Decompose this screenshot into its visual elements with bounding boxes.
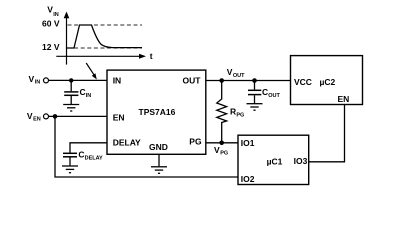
ground (IC GND) <box>151 167 167 174</box>
svg-text:TPS7A16: TPS7A16 <box>139 107 176 117</box>
svg-text:DELAY: DELAY <box>113 137 141 147</box>
svg-text:V: V <box>27 111 33 121</box>
label CDELAY <box>78 149 103 161</box>
resistor RPG <box>217 81 227 143</box>
wire PG pin to IO1 of uC1 <box>206 142 238 144</box>
label CIN <box>80 87 92 99</box>
label VPG <box>214 145 228 157</box>
svg-text:IO2: IO2 <box>241 174 255 184</box>
label VIN <box>29 74 41 86</box>
svg-text:µC2: µC2 <box>320 77 336 87</box>
junction node VOUT/COUT <box>252 78 257 83</box>
svg-text:IO1: IO1 <box>241 138 255 148</box>
svg-text:EN: EN <box>33 117 41 123</box>
inset waveform trace <box>67 25 142 48</box>
svg-text:DELAY: DELAY <box>85 155 103 161</box>
inset plot t-axis <box>56 55 140 57</box>
svg-text:VCC: VCC <box>294 77 312 87</box>
svg-text:R: R <box>230 106 236 116</box>
svg-text:12 V: 12 V <box>42 42 60 52</box>
ground (CDELAY) <box>62 166 78 173</box>
svg-text:V: V <box>29 74 35 84</box>
junction node VEN branch <box>53 114 58 119</box>
svg-text:IN: IN <box>53 12 59 18</box>
inset dashed level 60V <box>68 24 143 26</box>
microcontroller uC2 <box>291 56 363 105</box>
svg-text:OUT: OUT <box>268 93 280 99</box>
svg-text:IN: IN <box>35 80 41 86</box>
svg-text:IN: IN <box>86 93 92 99</box>
svg-text:GND: GND <box>149 142 168 152</box>
inset label VIN <box>47 5 59 18</box>
label RPG <box>230 106 244 118</box>
capacitor CIN <box>64 80 78 104</box>
svg-text:EN: EN <box>113 112 125 122</box>
wire uC2 EN down to IO3 <box>309 105 345 162</box>
svg-text:PG: PG <box>236 112 244 118</box>
svg-text:OUT: OUT <box>183 76 202 86</box>
capacitor COUT <box>248 81 261 104</box>
label COUT <box>262 87 280 99</box>
op IC U1 TPS7A16 <box>107 70 206 154</box>
wire VEN down and along bottom to IO2 <box>55 116 238 177</box>
label VOUT <box>227 67 245 79</box>
svg-text:µC1: µC1 <box>267 156 283 166</box>
junction node VOUT/RPG <box>219 78 224 83</box>
input terminal VEN <box>44 114 49 119</box>
svg-text:PG: PG <box>220 151 228 157</box>
svg-text:60 V: 60 V <box>42 18 60 28</box>
wire VEN to IC EN pin <box>49 115 107 117</box>
svg-text:IN: IN <box>113 76 122 86</box>
wire OUT to VCC of uC2 <box>206 80 291 82</box>
microcontroller uC1 <box>238 135 309 184</box>
svg-text:EN: EN <box>338 94 350 104</box>
wire VIN to IC IN pin <box>49 79 107 81</box>
input terminal VIN <box>44 78 49 83</box>
inset plot V-axis <box>66 15 68 65</box>
wire GND pin down <box>158 154 160 166</box>
svg-text:OUT: OUT <box>233 73 245 79</box>
svg-text:PG: PG <box>189 137 202 147</box>
inset dashed level 12V <box>68 47 143 49</box>
svg-text:IO3: IO3 <box>294 156 308 166</box>
capacitor CDELAY <box>63 153 77 165</box>
label VEN <box>27 111 41 123</box>
inset plot t-axis arrowhead <box>139 54 146 59</box>
ground (CIN) <box>63 105 79 112</box>
svg-text:V: V <box>227 67 233 77</box>
svg-text:V: V <box>214 145 220 155</box>
junction node VPG <box>219 141 224 146</box>
annotation arrow from inset to IN wire <box>86 63 94 75</box>
inset plot V-axis arrowhead <box>64 12 70 19</box>
junction node VIN/CIN <box>69 78 73 82</box>
svg-text:t: t <box>150 51 153 61</box>
wire DELAY pin to CDELAY <box>70 143 107 153</box>
ground (COUT) <box>247 104 263 111</box>
